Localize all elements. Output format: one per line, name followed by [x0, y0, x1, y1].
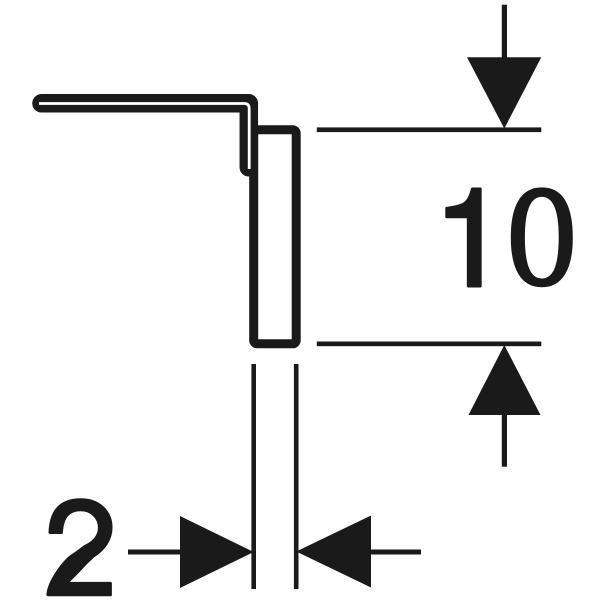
dimension label 10 digit 0	[512, 189, 571, 286]
upward arrowhead	[469, 345, 541, 415]
dimension label 2	[48, 500, 111, 595]
dimension label 10 digit 1	[447, 189, 481, 286]
downward arrowhead	[467, 57, 541, 128]
lower dimension line of 10	[317, 342, 542, 347]
right lead line of 2	[371, 550, 421, 555]
left extension line	[251, 364, 256, 589]
left lead line of 2	[128, 550, 180, 555]
right extension line	[294, 364, 299, 589]
upper dimension line of 10	[317, 127, 542, 132]
right-pointing arrowhead	[180, 516, 254, 588]
left-pointing arrowhead	[296, 516, 371, 588]
panel cross-section rectangle	[254, 130, 297, 344]
stem of top arrow	[502, 5, 507, 60]
stem of bottom arrow	[502, 415, 507, 467]
L-profile angle bracket (sheet outer)	[42, 103, 249, 167]
L-profile sheet interior white line	[39, 104, 249, 170]
